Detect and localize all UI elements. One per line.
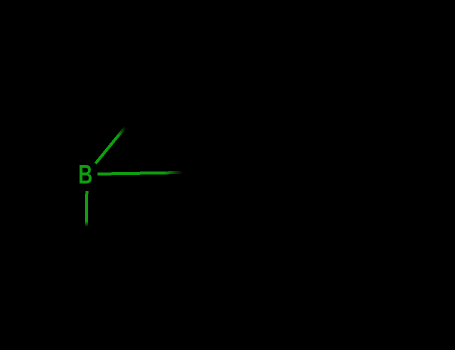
svg-text:B: B [78,160,92,189]
bond B to right carbon (green half, fades to black) [98,173,184,175]
bond B to lower carbon (green half, fades to black) [85,191,89,227]
bond B to upper-right carbon (green half, fades to black) [96,125,128,164]
